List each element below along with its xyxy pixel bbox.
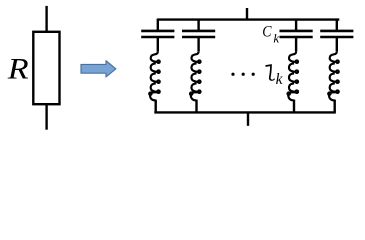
svg-text:R: R <box>7 53 29 85</box>
svg-text:k: k <box>273 30 279 45</box>
svg-text:C: C <box>262 23 272 40</box>
svg-text:k: k <box>276 71 284 88</box>
